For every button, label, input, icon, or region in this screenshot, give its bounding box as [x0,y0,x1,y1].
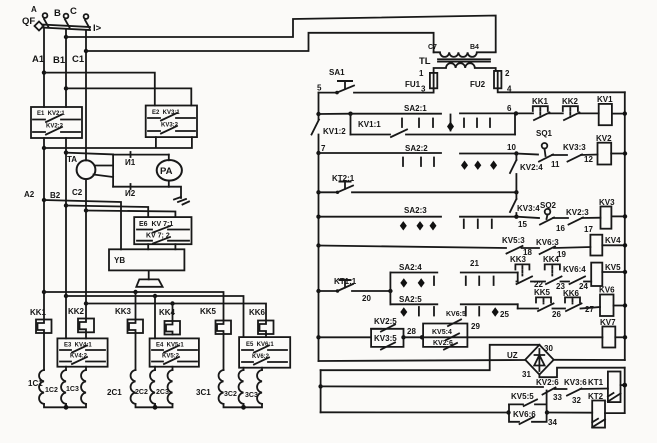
wire A2 to YB [44,200,121,249]
node bus row7 [623,303,627,307]
KV5:5 branch [509,391,547,405]
E6 contact KV7:2 [137,237,189,244]
svg-text:KV1:1: KV1:1 [358,120,381,129]
KV3:3 left lead [552,154,567,156]
svg-text:A: A [31,5,37,14]
svg-text:C1: C1 [72,54,85,65]
svg-text:KK4: KK4 [543,255,560,264]
measuring loop top edge to PA [113,154,169,156]
wire E4 left drop [154,296,156,338]
circuit breaker QF [22,5,102,34]
KK5 bracket [536,297,551,302]
SA2:2 tick 2 [420,158,422,167]
measuring loop left edge [112,155,114,187]
contact KV2:6 [536,378,567,402]
SA2:2 tick 3 [433,158,435,167]
svg-text:26: 26 [552,310,561,319]
contact KK1 [532,97,563,120]
svg-text:KV1:2: KV1:2 [323,127,346,136]
contact KV5:5 [509,391,547,407]
svg-text:YB: YB [114,256,125,265]
node B2 [64,203,68,207]
svg-text:33: 33 [553,393,562,402]
wire FU1 to SA1 row [354,88,434,92]
svg-text:SA2:1: SA2:1 [404,104,427,113]
node A2 [42,198,46,202]
SA2:4 tick 1 [433,277,435,286]
relay coil KV6 [599,286,615,317]
SQ2 head [545,209,551,215]
KT1 delay mark [608,393,621,402]
measuring loop bottom edge [113,186,169,188]
node H3 start [84,301,88,305]
wire KK2 to E3 right [85,332,87,338]
wire KK3 to coil 2C1 [135,333,137,370]
KK3 left lead [517,281,518,283]
KK5 dashed link [543,299,545,304]
KK3 dashed link [521,266,523,276]
svg-text:KV3:3: KV3:3 [563,143,586,152]
relay coil KV4 [590,235,621,256]
wire E4 to coil 2C3 [172,367,174,370]
KV3:3 blade [568,155,583,162]
star join group 1 [44,404,86,407]
SA1 left wire [319,92,337,94]
svg-text:QF: QF [22,16,35,27]
relay element box E6 (KV7) [134,217,191,244]
UZ diode [534,349,544,371]
KK4 right lead [561,281,570,283]
node B1 tap [64,35,68,39]
KT1:1 right lead [352,290,390,292]
wire C1 to transformer C7 [86,33,434,53]
wire row A [321,385,543,388]
SQ2 stem [547,215,548,220]
wire B2 to E6 left [66,206,148,218]
KK2 dashed link [569,108,571,117]
wire SA2:4-5 vertical [389,273,391,305]
contact KV1:1 [351,130,516,138]
node B tap PA row [64,150,68,154]
SA2:4 tick 2 [465,277,467,286]
wire SA2:4 to KK3 chain [517,273,519,282]
box2 mid blade [446,334,459,341]
contact KK2 [562,97,599,120]
svg-text:KV6:5: KV6:5 [446,311,466,318]
svg-text:A1: A1 [32,54,45,65]
KK6 bracket [565,297,580,302]
parallel contacts KV6:5 KV5:4 KV2:6 [423,320,480,350]
E5 contact KV6:2 [242,358,287,365]
KV3:3 right lead [581,154,598,157]
KV6:4 blade [570,277,586,285]
SA2:1 tick 1 [401,119,403,128]
E1 contact KV2:2 [33,127,80,135]
SA2:1 diamond stem [450,115,452,131]
svg-text:E3 KV4:1: E3 KV4:1 [64,343,92,349]
svg-text:TA: TA [67,155,77,164]
wire H3 [86,304,266,321]
svg-text:SQ1: SQ1 [536,129,553,138]
SA2:5 diamond 2 [492,307,499,316]
node A1 tap to E2 [42,70,46,74]
KV2:4 blade [510,160,516,173]
SA2:1 tick 4 [463,119,465,128]
SA2:4 line [390,272,517,274]
coil 1C3 [66,370,86,404]
wire KV5 to bus [602,271,625,273]
node bus row1 [623,111,627,115]
right bus upper [624,92,626,360]
wire KK1 to coil 1C1 [43,333,45,370]
wire B1 to transformer B4 [66,16,496,52]
time relay coil KT2 [588,392,605,428]
SQ1 stem [545,149,546,156]
KK5 left lead [518,308,538,310]
TL core [438,59,490,61]
node row8 left [316,335,320,339]
KV2:5 blade [381,325,395,332]
svg-text:KV5:3: KV5:3 [502,236,525,245]
svg-text:SA2:2: SA2:2 [405,144,428,153]
KK1 dashed link [539,108,541,117]
return bus vertical [320,370,322,412]
svg-text:KT1: KT1 [588,378,604,387]
svg-text:KV1: KV1 [597,95,613,104]
svg-text:10: 10 [507,143,516,152]
relay coil KV7 [600,318,616,348]
QF actuator diamond [35,22,44,31]
KV3:4 lower lead [515,213,517,217]
contact KV1:2 in bus [312,120,347,137]
node star 3 [241,405,246,410]
rectifier UZ [507,344,554,379]
KV2:4 lower lead [515,174,517,192]
horn symbol [136,279,162,286]
relay coil KV5 [591,263,621,286]
node bus row5 [623,243,627,247]
svg-text:31: 31 [522,370,531,379]
KV6:4 right lead [584,281,591,283]
contact KV6:3 [536,238,590,259]
svg-text:1: 1 [419,69,424,78]
phase bus C1 [72,31,434,161]
node row1 SA2:1 left [348,112,352,116]
wire KV1 to bus [612,113,625,115]
wire E5 to coil 3C2 [243,368,245,370]
node C1 tap [84,49,88,53]
wire E4 to coil 2C2 [154,367,156,370]
coil 1C1 [28,370,44,404]
box2 top blade [448,320,461,327]
QF terminal circle phase C [84,14,89,19]
svg-text:1C2: 1C2 [45,387,58,394]
KV3:4 blade [510,199,516,212]
node row6 left [316,289,320,293]
TL secondary winding [434,63,496,73]
node H2 E4 tap [153,294,157,298]
svg-text:KK2: KK2 [68,307,85,316]
wire E3 to coil 1C2 [65,367,67,370]
svg-text:KK4: KK4 [159,308,176,317]
SA2:5 line [390,303,517,305]
coil 1C2 [45,370,66,404]
wire loop top to PA [168,155,170,161]
cam switch SA2:5 [390,295,517,319]
node SA2:4 branch [388,289,392,293]
wire FU2 to right bus [498,88,625,92]
relay coil KV2 [596,134,612,165]
wire C2 to E6 right [86,211,175,218]
KK4 dashed link [551,266,553,276]
svg-text:2: 2 [505,69,510,78]
wire row B left [321,411,509,413]
SA2:4 diamond 2 [418,278,425,287]
SA1 blade [337,86,354,93]
svg-text:17: 17 [584,225,593,234]
wire UZ right to bus [554,359,625,361]
relay element box E3 (KV4) [57,338,107,366]
coil 3C3 [245,370,262,404]
KK2 right lead [579,112,599,114]
SA2:5 tick 3 [465,307,467,316]
node 15 [514,215,518,219]
node H3 KK4 tap [170,301,174,305]
feeder H2 phase B [64,294,244,339]
svg-text:KK2: KK2 [562,97,579,106]
svg-text:SA1: SA1 [329,68,345,77]
KV6:6 left edge [509,404,547,421]
box2 bottom blade [444,343,457,350]
KV2:3 left lead [553,217,568,219]
KT2:1 stem [344,182,346,189]
wire UZ bottom to lower right bus [539,368,624,378]
KK3 bracket [515,264,529,269]
E2 contact KV3:2 [148,126,195,134]
KK6 dashed link [572,299,574,304]
row5 wire [319,246,507,249]
relay element box E4 (KV5) [150,338,199,366]
wire KV3 to bus [611,215,625,217]
SA2:2 diamond 1 [461,161,468,170]
svg-text:KK3: KK3 [510,255,527,264]
wire box to KT2 [547,412,592,414]
SQ1 left lead [516,154,538,155]
wire B below E1 [65,138,67,338]
ground symbol [174,197,189,205]
PA bottom lead [168,181,170,187]
node row3 right [514,190,518,194]
E4 contact KV5:2 [152,357,197,364]
QF blade phase C [85,20,90,28]
wire KK4 drop [172,304,174,322]
E3 contact KV4:2 [60,357,105,364]
contact KV6:4 [563,265,591,291]
node H2 start [64,294,68,298]
row8 wire left [319,336,372,338]
SQ2 left lead [516,217,539,218]
SQ1 blade [539,155,553,162]
KK2 blade [564,113,580,121]
terminal tick I2 [130,184,132,189]
KV2:4 upper lead [515,154,517,161]
cam switch SA2:2 [319,144,517,170]
row1 wire to KK1 [516,112,533,114]
UZ diamond [525,345,554,375]
svg-text:I>: I> [93,23,102,34]
KT2:1 blade [338,186,354,193]
svg-text:KV6:4: KV6:4 [563,265,586,274]
node box2 left [420,335,424,339]
SA2:1 tick 5 [476,119,478,128]
contact KK3 [510,255,545,289]
SA2:5 tick 1 [418,307,420,316]
svg-text:B2: B2 [50,191,61,200]
svg-text:KV2:6: KV2:6 [536,378,559,387]
thermal relay heater KK1 [30,308,52,333]
node 6 [514,111,518,115]
KV5:3 blade [507,246,523,254]
TL primary winding [434,52,496,57]
wire box2 to KV7 [467,336,602,338]
star join group 3 [224,404,263,407]
contact KV2:4 vertical [510,154,543,193]
SA2:1 tick 6 [489,119,491,128]
node row5 left [316,243,320,247]
svg-text:KK6: KK6 [249,308,266,317]
svg-text:3C1: 3C1 [196,388,211,397]
KK3 right lead [531,281,545,283]
contact KK6 [563,289,600,314]
svg-text:21: 21 [470,259,479,268]
SA2:4 diamond 1 [400,278,407,287]
node bus row8 [623,335,627,339]
cam switch SA2:4 [390,259,517,288]
E5 contact KV6:1 [242,346,287,353]
thermal relay heater KK4 [159,308,180,335]
time relay contact KT1:1 [319,277,391,303]
node row4 left [316,215,320,219]
row4 wire [319,216,517,218]
svg-text:27: 27 [585,305,594,314]
svg-text:15: 15 [518,220,527,229]
KV2:6 blade [543,388,556,395]
svg-text:34: 34 [548,418,557,427]
node bus row6 [623,270,627,274]
svg-text:32: 32 [572,396,581,405]
node A tap E2 bottom row [42,146,46,150]
relay coil KV1 [597,95,613,125]
wire KT2 to lower bus [605,412,625,414]
coil 2C2 [135,370,155,404]
coil 2C3 [156,370,173,404]
wire E2 bottom leads row [44,137,192,148]
SA2:1 tick 2 [418,119,420,128]
svg-text:3C2: 3C2 [224,391,237,398]
svg-text:KK1: KK1 [30,308,47,317]
contact KV3:4 vertical [510,192,540,216]
left bus lower part [318,135,320,362]
wire SA2:5 to KK5 chain [517,304,519,308]
contact KK5 [518,288,565,319]
KT2 delay mark [592,419,605,428]
KK1 blade [534,113,550,121]
fuse FU2 [470,69,512,94]
svg-text:24: 24 [579,282,588,291]
KK1 bracket [533,106,548,111]
wire left bus to UZ left [319,360,526,361]
SA2:3 tick 1 [463,220,465,229]
relay element box E2 (KV3) [146,106,197,138]
node bus row2 [623,151,627,155]
wire KK6 to E5 right [265,334,267,337]
KT1:1 left lead [319,290,338,292]
KV2:3 blade [569,218,584,225]
svg-text:E4 KV5:1: E4 KV5:1 [156,343,184,349]
contact KV3:6 [564,378,608,405]
svg-text:KV4: KV4 [605,236,621,245]
node row1 left [316,112,320,116]
KK1 right lead [549,112,563,114]
KV5:3 right lead [522,247,540,249]
feeder H3 phase C [84,301,266,321]
thermal relay heater KK3 [115,307,143,333]
SA2:4 tick 4 [493,277,495,286]
svg-text:16: 16 [556,224,565,233]
KT1:1 blade [338,284,354,291]
lower right bus [624,368,626,413]
svg-text:И2: И2 [125,189,136,198]
QF linkage bar upper [42,25,90,28]
coil 3C2 [224,370,244,404]
KT2:1 left lead [319,191,338,193]
SQ2 blade [540,218,554,225]
KK5 blade [538,304,554,312]
svg-text:SA2:5: SA2:5 [399,295,422,304]
control transformer TL [419,44,496,73]
thermal relay heater KK6 [249,308,274,334]
svg-text:5: 5 [317,84,322,93]
svg-text:KV3:6: KV3:6 [564,378,587,387]
svg-text:KV2:4: KV2:4 [520,163,543,172]
KT1:1 pivot [336,289,339,292]
wire E3 to coil 1C3 [85,367,87,370]
SA2:5 tick 4 [478,307,480,316]
KK3 blade [517,277,533,285]
relay element box E1 (KV2) [31,107,82,138]
svg-text:SA2:3: SA2:3 [404,206,427,215]
KK2 bracket [563,106,578,111]
phase bus B1 [53,16,496,108]
SA2:1 left edge [350,114,352,135]
KV6:3 blade [540,247,555,255]
wire E6 bottom left lead [147,244,149,249]
node return row A [318,384,322,388]
E1 contact KV2:1 [33,115,80,123]
KV6:6 blade [520,417,534,424]
KK6 blade [566,304,582,312]
ammeter PA [157,160,182,181]
KV3:6 right lead [581,388,608,391]
SA2:1 right edge [514,113,516,134]
SA2:3 diamond 3 [430,221,437,230]
KV3:5 blade [381,343,395,350]
KK4 blade [546,277,562,285]
svg-text:KK1: KK1 [532,97,549,106]
SA2:2 tick 1 [402,158,404,167]
svg-text:25: 25 [500,310,509,319]
SA2:3 tick 3 [491,220,493,229]
